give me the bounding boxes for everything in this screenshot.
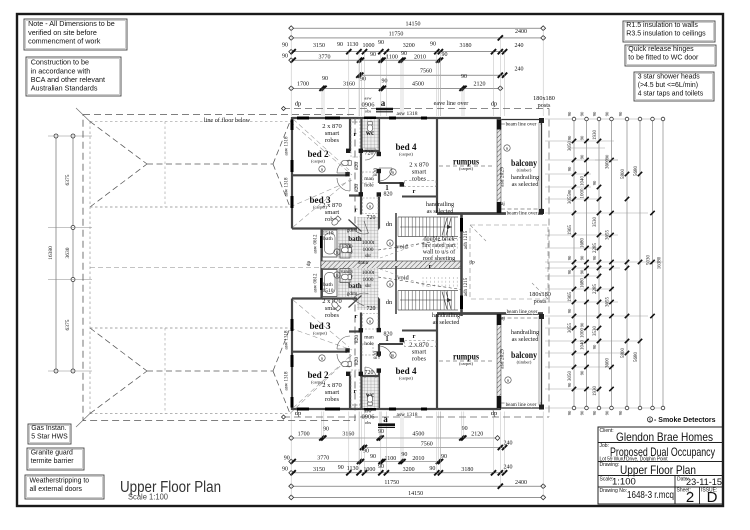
svg-text:90: 90 [618, 410, 623, 415]
svg-text:Client:: Client: [600, 428, 614, 434]
svg-text:R1.5 insulation to walls: R1.5 insulation to walls [626, 22, 698, 29]
svg-text:r: r [413, 188, 416, 195]
svg-text:1000: 1000 [363, 277, 374, 283]
svg-text:240: 240 [515, 43, 524, 49]
svg-text:r: r [354, 388, 357, 395]
svg-text:robes: robes [325, 137, 340, 144]
svg-text:2010: 2010 [414, 54, 426, 60]
svg-text:- Smoke Detectors: - Smoke Detectors [654, 417, 716, 424]
svg-text:4500: 4500 [412, 432, 424, 438]
svg-text:balcony: balcony [511, 158, 537, 168]
svg-text:90: 90 [580, 111, 585, 116]
svg-text:2010: 2010 [412, 456, 424, 462]
svg-text:1130: 1130 [347, 466, 359, 472]
svg-text:shr: shr [365, 254, 371, 259]
windows [291, 120, 294, 131]
smoke detectors in plan [367, 203, 373, 209]
svg-text:1040: 1040 [581, 176, 586, 187]
svg-text:beam line over: beam line over [507, 211, 538, 217]
note box: Note - All Dimensions to be [24, 19, 127, 50]
svg-text:man: man [364, 335, 374, 341]
svg-text:Drawing:: Drawing: [600, 462, 620, 468]
svg-text:aj: aj [501, 317, 505, 322]
svg-text:90: 90 [580, 154, 585, 159]
svg-text:beam line over: beam line over [507, 309, 538, 315]
svg-text:90: 90 [580, 322, 585, 327]
svg-text:S: S [321, 167, 323, 172]
svg-text:90: 90 [567, 135, 572, 140]
svg-text:1000: 1000 [581, 188, 586, 199]
svg-text:90: 90 [429, 466, 435, 472]
svg-text:90: 90 [370, 52, 376, 58]
svg-text:bed 4: bed 4 [396, 366, 417, 376]
svg-text:all external doors: all external doors [30, 486, 83, 493]
svg-text:90: 90 [363, 449, 369, 455]
svg-text:90: 90 [618, 111, 623, 116]
svg-text:1000: 1000 [363, 247, 374, 253]
svg-text:1700: 1700 [297, 82, 309, 88]
svg-text:3655: 3655 [606, 297, 611, 308]
balcony unit B [502, 407, 542, 409]
svg-text:Upper Floor Plan: Upper Floor Plan [620, 463, 696, 477]
svg-text:bath: bath [348, 235, 362, 243]
svg-text:90: 90 [567, 308, 572, 313]
svg-text:asw 0612: asw 0612 [314, 234, 319, 254]
svg-text:dp: dp [295, 410, 302, 417]
svg-text:1000: 1000 [581, 328, 586, 339]
svg-text:void: void [396, 244, 408, 251]
note box: Quick release hinges [625, 45, 716, 66]
svg-text:720: 720 [367, 306, 376, 312]
svg-text:1000: 1000 [363, 43, 375, 49]
svg-text:90: 90 [605, 410, 610, 415]
svg-text:14150: 14150 [406, 22, 421, 28]
svg-text:1510: 1510 [323, 288, 334, 294]
svg-text:90: 90 [580, 269, 585, 274]
svg-text:5680: 5680 [634, 166, 639, 177]
svg-text:7560: 7560 [421, 442, 433, 448]
svg-text:90: 90 [284, 455, 290, 461]
svg-text:11750: 11750 [389, 31, 404, 37]
svg-text:Weatherstripping to: Weatherstripping to [30, 477, 90, 484]
svg-text:beam line over: beam line over [506, 122, 537, 128]
svg-text:90: 90 [567, 111, 572, 116]
svg-text:as selected: as selected [427, 208, 455, 215]
svg-text:240: 240 [504, 465, 513, 471]
svg-text:hole: hole [364, 183, 374, 189]
roof-below diagonals crossing bedrooms [293, 119, 349, 170]
svg-text:820: 820 [354, 184, 360, 193]
svg-text:90: 90 [430, 42, 436, 48]
bath tiled floor [338, 230, 379, 259]
svg-text:3150: 3150 [313, 43, 325, 49]
svg-text:robes: robes [412, 356, 427, 363]
svg-text:vanity: vanity [341, 270, 354, 275]
bath tub unit B [323, 270, 338, 297]
stairs unit B [397, 291, 399, 311]
svg-text:asw 1318: asw 1318 [285, 330, 290, 350]
svg-text:1130: 1130 [347, 42, 359, 48]
svg-text:beam line over: beam line over [506, 402, 537, 408]
svg-text:as selected: as selected [433, 319, 461, 326]
svg-text:posts: posts [538, 102, 551, 109]
roof outline of floor below [83, 115, 355, 421]
svg-text:23-11-15: 23-11-15 [686, 477, 722, 488]
svg-text:r: r [355, 207, 358, 214]
svg-text:asd 2029: asd 2029 [500, 167, 506, 187]
svg-text:adh 1215: adh 1215 [464, 277, 469, 296]
svg-text:3530: 3530 [593, 217, 598, 228]
svg-text:3160: 3160 [342, 432, 354, 438]
svg-text:(timber): (timber) [517, 168, 532, 173]
svg-text:2285: 2285 [593, 284, 598, 295]
svg-text:r: r [354, 131, 357, 138]
svg-text:as selected: as selected [512, 181, 540, 188]
svg-text:1680: 1680 [581, 238, 586, 249]
svg-text:90: 90 [442, 52, 448, 58]
svg-text:240: 240 [504, 441, 513, 447]
svg-text:r: r [413, 333, 416, 340]
svg-text:5800: 5800 [621, 169, 626, 180]
svg-text:6375: 6375 [65, 174, 71, 185]
svg-text:adh 1215: adh 1215 [464, 230, 469, 249]
svg-text:5680: 5680 [634, 352, 639, 363]
svg-text:14150: 14150 [408, 491, 423, 497]
svg-text:S: S [392, 353, 394, 358]
svg-text:to be fitted to WC door: to be fitted to WC door [628, 55, 699, 62]
svg-text:aj: aj [501, 202, 505, 207]
svg-text:asw 1318: asw 1318 [285, 177, 290, 197]
svg-text:3050: 3050 [568, 371, 573, 382]
svg-text:4500: 4500 [412, 82, 424, 88]
svg-text:820: 820 [354, 357, 360, 366]
svg-text:Granite guard: Granite guard [31, 450, 73, 457]
svg-text:820: 820 [384, 192, 393, 198]
svg-text:90: 90 [338, 465, 344, 471]
svg-text:1000t: 1000t [362, 240, 375, 246]
svg-text:rumpus: rumpus [453, 352, 479, 362]
svg-text:11750: 11750 [384, 480, 399, 486]
svg-text:(>4.5 but <=6L/min): (>4.5 but <=6L/min) [638, 82, 698, 89]
svg-text:1:100: 1:100 [612, 477, 636, 488]
svg-text:dp: dp [295, 101, 302, 108]
svg-text:90: 90 [580, 370, 585, 375]
svg-text:90: 90 [360, 77, 366, 83]
svg-text:820: 820 [354, 162, 360, 171]
svg-text:smart: smart [325, 389, 340, 396]
svg-text:6375: 6375 [65, 319, 71, 330]
svg-text:180x180: 180x180 [533, 95, 555, 102]
svg-text:Scale 1:100: Scale 1:100 [128, 493, 169, 502]
svg-text:90: 90 [462, 426, 468, 432]
svg-text:3200: 3200 [403, 467, 415, 473]
svg-text:2 x 870: 2 x 870 [322, 202, 342, 209]
top hip roof [90, 122, 147, 165]
svg-text:3630: 3630 [65, 247, 71, 258]
svg-text:eave line over: eave line over [434, 100, 469, 107]
svg-text:90: 90 [370, 454, 376, 460]
svg-text:3050: 3050 [568, 141, 573, 152]
svg-text:void: void [397, 275, 409, 282]
sliding door asd 2029 [497, 119, 501, 213]
svg-text:2400: 2400 [515, 480, 527, 486]
top dimension block [291, 27, 543, 29]
svg-text:90: 90 [567, 382, 572, 387]
svg-text:dp: dp [306, 261, 312, 267]
svg-text:verified on site before: verified on site before [28, 28, 97, 37]
svg-text:90: 90 [567, 410, 572, 415]
svg-text:90: 90 [441, 454, 447, 460]
svg-text:820: 820 [354, 335, 360, 344]
svg-text:3600: 3600 [606, 358, 611, 369]
svg-text:90: 90 [378, 464, 384, 470]
svg-text:720: 720 [365, 370, 374, 376]
svg-text:handrailing: handrailing [432, 312, 460, 319]
svg-text:asw: asw [364, 96, 372, 101]
svg-text:asw 1318: asw 1318 [285, 371, 290, 391]
svg-text:90: 90 [567, 189, 572, 194]
svg-text:(timber): (timber) [517, 360, 532, 365]
svg-text:90: 90 [580, 255, 585, 260]
svg-text:3770: 3770 [319, 54, 331, 60]
svg-text:S: S [507, 378, 509, 383]
svg-text:90: 90 [282, 54, 288, 60]
svg-text:(carpet): (carpet) [459, 166, 473, 171]
svg-text:3150: 3150 [313, 467, 325, 473]
svg-text:handrailing: handrailing [511, 174, 539, 181]
building outer walls [292, 117, 502, 119]
svg-text:180x180: 180x180 [529, 291, 551, 298]
svg-text:90: 90 [461, 74, 467, 80]
svg-text:90: 90 [567, 255, 572, 260]
svg-text:90: 90 [322, 76, 328, 82]
svg-text:3180: 3180 [460, 43, 472, 49]
svg-text:3180: 3180 [461, 467, 473, 473]
svg-text:720: 720 [367, 215, 376, 221]
svg-text:720: 720 [365, 151, 374, 157]
svg-text:1: 1 [385, 184, 389, 192]
svg-text:3655: 3655 [606, 230, 611, 241]
svg-text:2 x 870: 2 x 870 [322, 382, 342, 389]
svg-text:S: S [392, 170, 394, 175]
svg-text:asw 1318: asw 1318 [397, 412, 418, 418]
svg-text:D: D [707, 489, 718, 506]
svg-text:(carpet): (carpet) [459, 361, 473, 366]
svg-text:3055: 3055 [568, 323, 573, 334]
svg-text:drain: drain [358, 261, 369, 266]
svg-text:90: 90 [592, 410, 597, 415]
note box: R1.5 insulation to walls [623, 21, 715, 42]
svg-text:asw 1318: asw 1318 [397, 111, 418, 117]
note box: Gas Instan. [28, 424, 71, 444]
svg-text:S: S [336, 273, 338, 278]
door arcs [337, 160, 350, 173]
smoke detector legend [647, 417, 652, 422]
svg-text:bath: bath [348, 282, 362, 290]
svg-text:90: 90 [567, 166, 572, 171]
svg-text:5030: 5030 [647, 255, 652, 266]
svg-text:90: 90 [592, 180, 597, 185]
note box: Construction to be [26, 57, 121, 96]
svg-text:2400: 2400 [515, 29, 527, 35]
svg-text:90: 90 [605, 154, 610, 159]
svg-text:handrailing: handrailing [511, 329, 539, 336]
svg-text:man: man [364, 176, 374, 182]
svg-text:90: 90 [592, 255, 597, 260]
svg-text:2120: 2120 [474, 82, 486, 88]
svg-text:bath: bath [323, 236, 333, 242]
svg-text:1965: 1965 [568, 292, 573, 303]
svg-text:(carpet): (carpet) [313, 331, 327, 336]
note box: 3 star shower heads [634, 72, 714, 101]
svg-text:1680: 1680 [581, 278, 586, 289]
svg-text:3160: 3160 [343, 82, 355, 88]
svg-text:90: 90 [378, 40, 384, 46]
svg-text:1000t: 1000t [362, 270, 375, 276]
svg-text:2 x 870: 2 x 870 [409, 342, 429, 349]
door jamb blocks [346, 149, 350, 153]
svg-text:7560: 7560 [420, 69, 432, 75]
svg-text:line of floor below: line of floor below [204, 117, 251, 124]
svg-text:2 x 870: 2 x 870 [322, 123, 342, 130]
svg-text:asd 2029: asd 2029 [500, 349, 506, 369]
svg-text:16380: 16380 [658, 256, 663, 269]
stairs unit A [397, 217, 399, 237]
svg-text:(carpet): (carpet) [311, 159, 325, 164]
svg-text:S: S [369, 319, 371, 324]
svg-text:a: a [383, 414, 388, 424]
eave line over [283, 108, 549, 110]
svg-text:rumpus: rumpus [453, 157, 479, 167]
svg-text:asw 0612: asw 0612 [314, 273, 319, 293]
svg-text:S: S [389, 241, 391, 246]
wc tiled floor [363, 119, 379, 150]
svg-text:90: 90 [580, 135, 585, 140]
wc fixtures [367, 122, 372, 132]
svg-text:dp: dp [491, 410, 498, 417]
svg-text:90: 90 [337, 42, 343, 48]
svg-text:90: 90 [580, 410, 585, 415]
svg-text:robes: robes [325, 396, 340, 403]
note box: Weatherstripping to [25, 475, 104, 499]
svg-text:r: r [355, 313, 358, 320]
svg-text:dp: dp [491, 101, 498, 108]
svg-text:1: 1 [385, 335, 389, 343]
svg-text:90: 90 [282, 467, 288, 473]
svg-text:S: S [648, 418, 651, 423]
svg-text:2: 2 [686, 489, 694, 506]
svg-text:as selected: as selected [512, 336, 540, 343]
svg-text:90: 90 [282, 43, 288, 49]
svg-text:16380: 16380 [48, 246, 54, 260]
left dimension chains [55, 136, 57, 371]
svg-text:5 Star HWS: 5 Star HWS [31, 433, 68, 440]
svg-text:3 star shower heads: 3 star shower heads [638, 74, 701, 81]
svg-text:obs: obs [365, 109, 372, 114]
svg-text:Quick release hinges: Quick release hinges [628, 46, 694, 53]
svg-text:90: 90 [605, 111, 610, 116]
svg-text:1700: 1700 [298, 432, 310, 438]
svg-text:handrailing: handrailing [426, 201, 454, 208]
svg-text:2120: 2120 [471, 432, 483, 438]
svg-text:1100: 1100 [386, 54, 398, 60]
right dimension block [573, 119, 575, 408]
note box: Granite guard [27, 448, 84, 470]
svg-text:bed 4: bed 4 [396, 142, 417, 152]
svg-text:90: 90 [592, 111, 597, 116]
svg-text:3770: 3770 [317, 455, 329, 461]
svg-text:termite barrier: termite barrier [31, 458, 75, 465]
bottom hip roof [90, 371, 147, 414]
svg-text:r: r [429, 263, 432, 270]
svg-text:90: 90 [592, 344, 597, 349]
svg-text:2 x 870: 2 x 870 [409, 162, 429, 169]
svg-text:Gas Instan.: Gas Instan. [31, 425, 66, 432]
svg-text:S: S [336, 250, 338, 255]
svg-text:bath: bath [323, 282, 333, 288]
svg-text:bed 3: bed 3 [310, 321, 331, 331]
svg-text:1648-3 r.mcq: 1648-3 r.mcq [627, 490, 674, 501]
svg-text:90: 90 [401, 51, 407, 57]
svg-text:robes: robes [325, 312, 340, 319]
svg-text:smart: smart [325, 209, 340, 216]
svg-text:shr: shr [365, 284, 371, 289]
svg-text:asw 1318: asw 1318 [285, 136, 290, 156]
svg-text:90: 90 [401, 452, 407, 458]
svg-text:S: S [389, 282, 391, 287]
posts area dashed [470, 225, 548, 299]
svg-text:1965: 1965 [568, 225, 573, 236]
svg-text:3530: 3530 [593, 326, 598, 337]
svg-text:R3.5 insulation to ceilings: R3.5 insulation to ceilings [626, 31, 706, 38]
svg-text:balcony: balcony [511, 350, 537, 360]
svg-text:Drawing No:: Drawing No: [600, 488, 628, 494]
svg-text:smart: smart [412, 349, 427, 356]
svg-text:Job:: Job: [600, 443, 609, 449]
svg-text:a: a [381, 98, 386, 108]
svg-text:2285: 2285 [593, 243, 598, 254]
svg-text:hole: hole [364, 341, 374, 347]
bottom dimension block [291, 437, 497, 439]
svg-text:S: S [369, 204, 371, 209]
svg-text:bed 2: bed 2 [308, 149, 329, 159]
interior walls unit A (top) + mirrored unit B [292, 174, 347, 176]
svg-text:240: 240 [515, 67, 524, 73]
svg-text:(carpet): (carpet) [399, 152, 413, 157]
svg-text:smart: smart [325, 130, 340, 137]
svg-text:smart: smart [412, 169, 427, 176]
title block [598, 427, 723, 504]
svg-text:dn: dn [386, 299, 393, 306]
svg-text:1930: 1930 [593, 386, 598, 397]
balcony unit A [502, 119, 542, 121]
svg-text:3200: 3200 [403, 43, 415, 49]
svg-text:1000: 1000 [363, 467, 375, 473]
svg-text:robes: robes [412, 176, 427, 183]
svg-text:1930: 1930 [593, 130, 598, 141]
svg-text:0906: 0906 [362, 102, 376, 109]
svg-text:dn: dn [386, 221, 393, 228]
svg-text:Glendon Brae Homes: Glendon Brae Homes [616, 430, 713, 444]
svg-text:obs: obs [365, 420, 372, 425]
svg-text:commencment of work: commencment of work [28, 37, 101, 46]
svg-text:S: S [321, 356, 323, 361]
svg-text:90: 90 [382, 79, 388, 85]
svg-text:5800: 5800 [621, 348, 626, 359]
svg-text:Note - All Dimensions to be: Note - All Dimensions to be [28, 19, 115, 28]
bath tub unit A [323, 230, 338, 257]
svg-text:90: 90 [567, 269, 572, 274]
